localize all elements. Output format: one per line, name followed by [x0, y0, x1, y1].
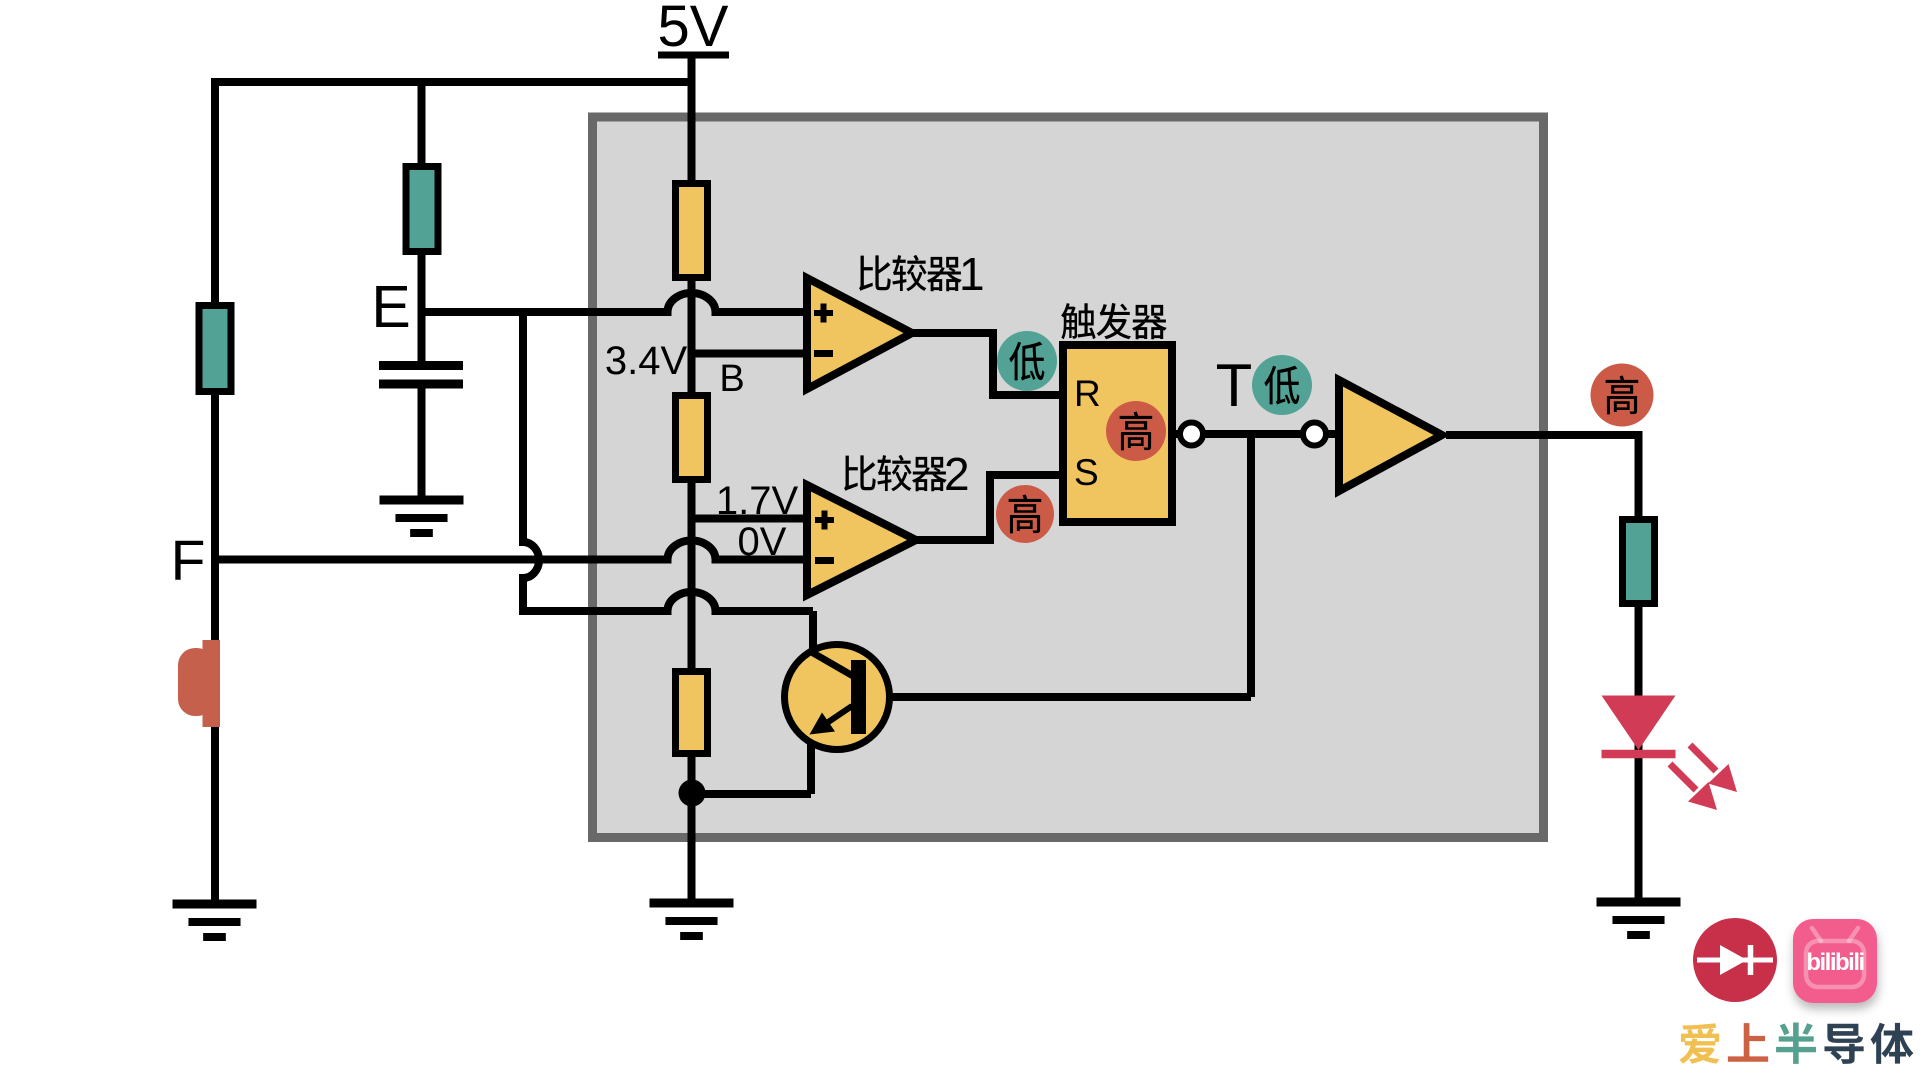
resistor R5 (E charging, teal): [406, 167, 438, 252]
wire: transistor collector horizontal: [866, 693, 1251, 701]
svg-text:3.4V: 3.4V: [605, 339, 688, 383]
resistor R2 (divider middle, yellow): [676, 396, 708, 480]
LED light arrow 2: [1670, 764, 1696, 790]
wire: comparator1 output to flip-flop R input: [912, 333, 1063, 395]
U1 pin -: [814, 350, 833, 357]
transistor Q1 (discharge) body: [785, 645, 890, 750]
wire: E branch down (hops F wire) then right to transistor base (hops divider): [523, 312, 813, 611]
node bubble (flip-flop output, open circle): [1180, 423, 1203, 446]
svg-text:S: S: [1074, 452, 1099, 493]
svg-text:T: T: [1216, 352, 1253, 419]
ground (left rail): [173, 900, 257, 909]
ground (LED): [1597, 898, 1681, 907]
LED D1 triangle: [1602, 696, 1676, 751]
svg-text:F: F: [171, 529, 206, 593]
buffer U4 (output stage triangle): [1339, 380, 1442, 491]
op-amp U2 comparator2 (比较器2): [807, 485, 916, 595]
wire: comparator2 output to flip-flop S input: [916, 475, 1063, 540]
resistor R1 (divider top, yellow): [676, 184, 708, 278]
Q1 base bar: [851, 660, 866, 734]
wire: divider segment R1-R2: [688, 280, 696, 393]
svg-text:0V: 0V: [738, 520, 787, 564]
label 比较器1: [859, 255, 891, 291]
U2 pin -: [815, 557, 834, 564]
state bubble 低 (comparator1 output low): [997, 331, 1057, 391]
junction dot (divider bottom / emitter): [679, 780, 706, 807]
pushbutton SW1 (red, on left rail): [203, 640, 221, 727]
LED D1 cathode bar: [1602, 750, 1676, 759]
wire: 3.4V tap to comparator1 - input: [692, 350, 808, 358]
logo: bilibili app icon: [1793, 919, 1877, 1003]
wire: capacitor bottom plate to ground: [418, 384, 426, 500]
svg-text:bilibili: bilibili: [1806, 949, 1863, 976]
node bubble (buffer input, open circle): [1303, 423, 1326, 446]
label 比较器2: [844, 455, 876, 491]
logo: red circle with diode play icon: [1693, 918, 1777, 1002]
resistor R6 (LED series, teal): [1623, 520, 1655, 604]
U1 pin +: [814, 304, 833, 323]
capacitor C1 bottom plate: [379, 380, 463, 389]
capacitor C1 top plate: [379, 361, 463, 370]
resistor R4 (left, teal): [199, 306, 231, 392]
wire: transistor base stub: [809, 611, 817, 653]
wire: E-chain vertical (top rail to capacitor top plate): [418, 82, 426, 365]
state bubble 高 (comparator2 output high): [996, 485, 1054, 543]
resistor R3 (divider bottom, yellow): [676, 672, 708, 754]
svg-text:5V: 5V: [658, 0, 729, 59]
svg-text:1: 1: [959, 248, 985, 300]
label 触发器: [1061, 303, 1095, 339]
state bubble 高 (flip-flop stored high): [1106, 401, 1166, 461]
Q1 collector diagonal: [808, 650, 853, 676]
wire: left rail (down to ground through button): [211, 78, 219, 901]
wire: node T drop to transistor collector run: [1247, 434, 1255, 697]
wire: divider segment R3 to ground: [688, 756, 696, 901]
LED light arrow 1: [1690, 745, 1716, 771]
wire: node F horizontal to comparator2 - input (hops divider): [215, 541, 807, 560]
wire: node E horizontal to comparator1 + input (hops divider): [422, 293, 808, 312]
state bubble 低 (node T low): [1252, 355, 1312, 415]
svg-text:B: B: [719, 358, 744, 400]
U2 pin +: [815, 511, 834, 530]
svg-text:R: R: [1074, 373, 1101, 414]
Q1 emitter diagonal with arrow: [815, 706, 852, 731]
svg-text:E: E: [371, 274, 410, 340]
wire: flip-flop output node T to buffer input: [1176, 430, 1338, 438]
wire: emitter to divider-bottom junction: [692, 790, 811, 798]
wire: 1.7V tap to comparator2 + input: [692, 515, 808, 523]
wire: top rail from left rail to 5V stem: [211, 78, 692, 86]
svg-text:2: 2: [944, 448, 970, 500]
wire: 5V stem into divider (vertical rail x=691.5): [688, 58, 696, 181]
wire: divider segment R2-R3: [688, 482, 696, 669]
svg-text:1.7V: 1.7V: [716, 479, 799, 523]
wire: LED branch vertical rail: [1635, 431, 1643, 901]
wire: buffer output to LED branch: [1446, 431, 1639, 439]
state bubble 高 (output high): [1591, 364, 1654, 427]
ground (divider): [650, 899, 734, 908]
wire: transistor emitter stub: [807, 731, 815, 794]
IC body (gray box, 555 internals): [593, 117, 1544, 838]
flip-flop U3 (触发器) body: [1063, 345, 1172, 522]
op-amp U1 comparator1 (比较器1): [807, 278, 912, 389]
ground (capacitor): [380, 496, 464, 505]
power symbol 5V bar: [658, 52, 729, 59]
watermark 爱上半导体: [1679, 1023, 1719, 1063]
